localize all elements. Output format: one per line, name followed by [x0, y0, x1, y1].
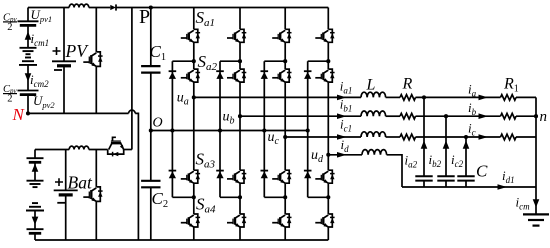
wire Cpv1 to ground	[27, 25, 29, 47]
wire phase a R-R1	[416, 96, 501, 98]
wire phase a L-R	[386, 96, 400, 98]
current arrow i_b	[479, 113, 489, 119]
svg-text:Sa4: Sa4	[196, 195, 216, 216]
svg-text:ia: ia	[468, 82, 477, 99]
svg-text:icm1: icm1	[31, 31, 50, 48]
top rail left segment	[28, 7, 69, 9]
wire Bat+ vertical	[65, 150, 67, 191]
wire cap branch b lower	[445, 181, 447, 187]
current arrow i_b1	[337, 113, 347, 119]
current arrow i_a	[479, 95, 489, 101]
inductor L phase b	[361, 111, 386, 116]
diode leg2 lower clamp	[216, 171, 224, 179]
svg-text:ib2: ib2	[429, 152, 442, 169]
node u_c junction	[283, 135, 287, 139]
top rail right segment	[116, 7, 328, 9]
wire top rail to battery switch	[131, 8, 133, 150]
svg-text:C: C	[476, 162, 488, 181]
node phase c cap tap	[464, 135, 468, 139]
wire leg3 clamp bottom	[264, 196, 285, 198]
transistor leg4 lower-inner	[315, 170, 334, 183]
diode leg1 upper clamp	[169, 71, 177, 79]
current arrow i_d	[337, 152, 347, 158]
battery top wire left	[35, 149, 69, 151]
svg-text:L: L	[366, 77, 376, 94]
transistor leg2 lower-outer	[227, 214, 246, 227]
resistor R phase a	[400, 95, 416, 101]
svg-text:ua: ua	[177, 91, 189, 108]
wire boost switch upper	[95, 8, 97, 52]
current arrow (battery CM down)	[32, 217, 39, 225]
svg-text:ud: ud	[311, 148, 324, 165]
svg-text:O: O	[153, 116, 163, 131]
wire cap branch a lower	[423, 181, 425, 187]
ground (PV lower, inverted)	[19, 58, 37, 65]
svg-text:R: R	[402, 76, 413, 93]
node N wire	[28, 112, 129, 114]
wire phase a R1-n	[516, 96, 536, 98]
svg-text:ic2: ic2	[451, 152, 464, 169]
ground (PV upper)	[20, 48, 37, 54]
svg-text:Sa2: Sa2	[198, 52, 218, 73]
node leg2 upper clamp junction	[238, 59, 242, 63]
diode leg3 upper clamp	[261, 71, 269, 79]
wire leg1 top	[193, 8, 195, 30]
wire to battery ground	[34, 162, 36, 180]
svg-text:ib: ib	[468, 100, 477, 117]
wire battery chain top	[34, 150, 36, 159]
current arrow i_a2	[421, 141, 428, 149]
wire leg3 S3-S4	[284, 183, 286, 214]
svg-text:2: 2	[7, 22, 12, 33]
wire leg4 output-S3	[327, 155, 329, 170]
node leg1 lower clamp junction	[192, 195, 196, 199]
transistor (battery top switch)	[108, 137, 124, 156]
wire C1 to C2	[150, 73, 152, 181]
inductor (battery)	[69, 146, 89, 149]
wire leg2 clamp rail	[219, 61, 221, 197]
node leg1 upper clamp junction	[192, 59, 196, 63]
node leg2 clamp-O junction	[218, 128, 222, 132]
capacitor C2	[141, 181, 160, 188]
wire leg1 S1-S2	[193, 42, 195, 69]
wire leg1 clamp bottom	[172, 196, 193, 198]
wire N to bottom rail	[135, 113, 138, 240]
svg-text:Sa1: Sa1	[196, 8, 216, 29]
wire leg2 output-S3	[239, 116, 241, 170]
capacitor Cpv/2 upper	[18, 21, 39, 25]
wire leg4 clamp bottom	[308, 196, 329, 198]
diode leg1 lower clamp	[169, 171, 177, 179]
transistor leg2 lower-inner	[227, 170, 246, 183]
node leg4 clamp-O junction	[306, 128, 310, 132]
current arrow i_cm1 (up)	[25, 31, 32, 39]
node leg2 lower clamp junction	[238, 195, 242, 199]
wire cap branch c lower	[465, 181, 467, 187]
wire phase b R1-n	[516, 115, 536, 117]
current arrow i_c1	[337, 134, 347, 140]
wire leg1 S3-S4	[193, 183, 195, 214]
transistor leg4 upper-inner	[315, 69, 334, 82]
resistor R phase b	[400, 113, 416, 119]
transistor leg4 upper-outer	[315, 29, 334, 42]
svg-text:ic: ic	[468, 121, 476, 138]
diode leg3 lower clamp	[261, 171, 269, 179]
wire phase d to filter	[328, 154, 362, 156]
wire PV+ to Cpv1	[27, 8, 29, 22]
node n junction	[534, 114, 538, 118]
current arrow i_a1	[337, 95, 347, 101]
diode (boost, pointing right)	[110, 4, 116, 10]
wire ground to battery CM lower	[34, 211, 36, 230]
wire phase b to filter	[240, 115, 361, 117]
wire leg3 S1-S2	[284, 42, 286, 69]
svg-text:id: id	[341, 137, 350, 154]
inductor L phase c	[361, 132, 386, 137]
node leg3 lower clamp junction	[283, 195, 287, 199]
ground (battery upper)	[27, 181, 44, 187]
capacitor C1	[141, 66, 160, 73]
capacitor C phase a	[415, 176, 432, 180]
svg-text:ia2: ia2	[405, 153, 418, 170]
current arrow (battery CM up)	[32, 164, 39, 172]
diode leg4 lower clamp	[304, 171, 312, 179]
svg-text:ub: ub	[223, 110, 235, 127]
fraction bar lower	[3, 93, 17, 95]
wire leg3 S2-output	[284, 82, 286, 137]
wire C2 to bottom rail	[150, 187, 152, 240]
svg-text:Sa3: Sa3	[196, 150, 216, 171]
svg-text:R1: R1	[503, 76, 519, 95]
svg-text:N: N	[12, 105, 26, 124]
wire leg1 bottom	[193, 227, 195, 240]
wire leg3 output-S3	[284, 137, 286, 170]
wire phase c L-R	[386, 136, 400, 138]
current arrow i_c2	[463, 141, 470, 149]
node leg3 clamp-O junction	[262, 128, 266, 132]
transistor leg4 lower-outer	[315, 214, 334, 227]
wire boost switch lower	[95, 66, 97, 113]
plus sign (PV)	[53, 47, 61, 55]
wire leg1 clamp rail	[171, 61, 173, 197]
node phase a cap tap	[422, 95, 426, 99]
inductor L phase d	[362, 150, 387, 155]
svg-text:C1: C1	[150, 42, 167, 63]
wire Bat- vertical	[65, 195, 67, 240]
current arrow i_b2	[443, 141, 450, 149]
svg-text:Upv2: Upv2	[33, 93, 55, 110]
wire ground to Cpv2	[27, 65, 29, 91]
current arrow i_c	[479, 134, 489, 140]
node u_a junction	[192, 95, 196, 99]
transistor S_a4 (leg 1)	[181, 214, 200, 227]
svg-text:ia1: ia1	[340, 79, 353, 96]
wire phase c R-R1	[416, 136, 501, 138]
node u_b junction	[238, 114, 242, 118]
bottom rail	[35, 239, 328, 241]
PV source symbol	[52, 61, 76, 66]
transistor S_a3 (leg 1)	[181, 170, 200, 183]
svg-text:uc: uc	[268, 130, 280, 147]
minus sign (PV)	[54, 69, 62, 71]
wire phase c to filter	[285, 136, 361, 138]
svg-text:Upv1: Upv1	[31, 7, 53, 24]
svg-text:icm2: icm2	[30, 72, 49, 89]
wire PV+ vertical	[63, 8, 65, 62]
capacitor C phase b	[437, 176, 454, 180]
wire leg4 bottom	[327, 227, 329, 240]
plus sign (Bat)	[55, 178, 63, 186]
node leg4 upper clamp junction	[326, 59, 330, 63]
current arrow i_cm (down)	[533, 199, 540, 207]
wire battery bottom switch lower	[95, 201, 97, 240]
diode leg2 upper clamp	[216, 71, 224, 79]
capacitor (battery CM upper)	[27, 158, 44, 162]
node N junction	[26, 111, 30, 115]
top rail to boost diode	[89, 7, 111, 9]
current arrow i_d1	[498, 184, 508, 190]
wire leg2 top	[239, 8, 241, 30]
minus sign (Bat)	[57, 202, 65, 204]
wire leg2 bottom	[239, 227, 241, 240]
wire leg1 clamp top	[172, 60, 193, 62]
resistor R1 phase c	[501, 134, 517, 140]
svg-text:ib1: ib1	[340, 97, 353, 114]
transistor (PV boost switch)	[83, 52, 102, 67]
wire leg2 S3-S4	[239, 183, 241, 214]
wire leg3 clamp top	[264, 60, 285, 62]
transistor S_a2 (leg 1)	[181, 69, 200, 82]
node O junction	[149, 128, 153, 132]
resistor R1 phase b	[501, 113, 517, 119]
wire PV- vertical	[63, 66, 65, 114]
resistor R phase c	[400, 134, 416, 140]
wire common bus i_d1	[402, 186, 536, 188]
wire leg4 top	[327, 8, 329, 30]
wire hop (N over P-drop)	[129, 110, 136, 113]
wire leg2 S2-output	[239, 82, 241, 116]
wire phase b L-R	[386, 115, 400, 117]
wire phase b R-R1	[416, 115, 501, 117]
transistor leg2 upper-outer	[227, 29, 246, 42]
wire leg3 clamp rail	[263, 61, 265, 197]
node leg1 clamp-O junction	[170, 128, 174, 132]
ground (battery lower, inverted)	[26, 203, 44, 210]
wire leg2 S1-S2	[239, 42, 241, 69]
diode leg4 upper clamp	[304, 71, 312, 79]
wire leg4 clamp rail	[307, 61, 309, 197]
svg-text:icm: icm	[516, 195, 531, 212]
wire leg4 clamp top	[308, 60, 329, 62]
wire leg3 bottom	[284, 227, 286, 240]
wire leg1 output-S3	[193, 97, 195, 170]
wire cap branch a	[423, 97, 425, 176]
node u_d junction	[326, 153, 330, 157]
wire leg1 S2-output	[193, 82, 195, 97]
transistor leg3 lower-inner	[272, 170, 291, 183]
wire Cpv2 to node N	[27, 95, 29, 114]
capacitor (battery CM lower)	[27, 229, 44, 233]
transistor leg3 lower-outer	[272, 214, 291, 227]
wire battery chain bottom	[34, 233, 36, 240]
inductor (PV boost)	[69, 4, 89, 7]
svg-text:PV: PV	[65, 41, 90, 61]
wire leg4 S3-S4	[327, 183, 329, 214]
current arrow i_cm2 (down)	[25, 73, 32, 81]
node leg4 lower clamp junction	[326, 195, 330, 199]
node leg3 upper clamp junction	[283, 59, 287, 63]
fraction bar upper	[3, 21, 17, 23]
wire cap branch c	[465, 137, 467, 176]
wire right bus to ground	[535, 97, 537, 214]
wire O bus	[151, 130, 308, 132]
wire battery bottom switch upper	[95, 150, 97, 187]
svg-text:id1: id1	[502, 168, 515, 185]
wire P to C1	[150, 8, 152, 67]
transistor leg3 upper-outer	[272, 29, 291, 42]
wire cap branch b	[445, 116, 447, 176]
svg-text:2: 2	[7, 94, 12, 105]
wire phase c R1-n	[516, 136, 536, 138]
wire phase d down	[387, 155, 402, 187]
wire leg2 clamp bottom	[220, 196, 240, 198]
resistor R1 phase a	[501, 95, 517, 101]
transistor S_a1 (leg 1)	[181, 29, 200, 42]
capacitor Cpv/2 lower	[18, 91, 39, 95]
node phase b cap tap	[444, 114, 448, 118]
transistor (battery bottom switch)	[83, 187, 102, 202]
svg-text:P: P	[139, 6, 150, 28]
node P junction	[149, 5, 153, 9]
transistor leg2 upper-inner	[227, 69, 246, 82]
capacitor C phase c	[457, 176, 474, 180]
battery top wire mid	[89, 149, 108, 151]
svg-text:n: n	[540, 109, 548, 125]
wire leg4 S2-output	[327, 82, 329, 155]
transistor leg3 upper-inner	[272, 69, 291, 82]
svg-text:ic1: ic1	[340, 116, 352, 133]
wire leg3 top	[284, 8, 286, 30]
ground (grid side)	[523, 214, 549, 225]
svg-text:C2: C2	[152, 189, 169, 210]
wire leg4 S1-S2	[327, 42, 329, 69]
wire leg2 clamp top	[220, 60, 240, 62]
battery top wire right	[124, 149, 132, 151]
Bat source symbol	[54, 190, 78, 195]
wire phase a to filter	[194, 96, 361, 98]
inductor L phase a	[361, 92, 386, 97]
